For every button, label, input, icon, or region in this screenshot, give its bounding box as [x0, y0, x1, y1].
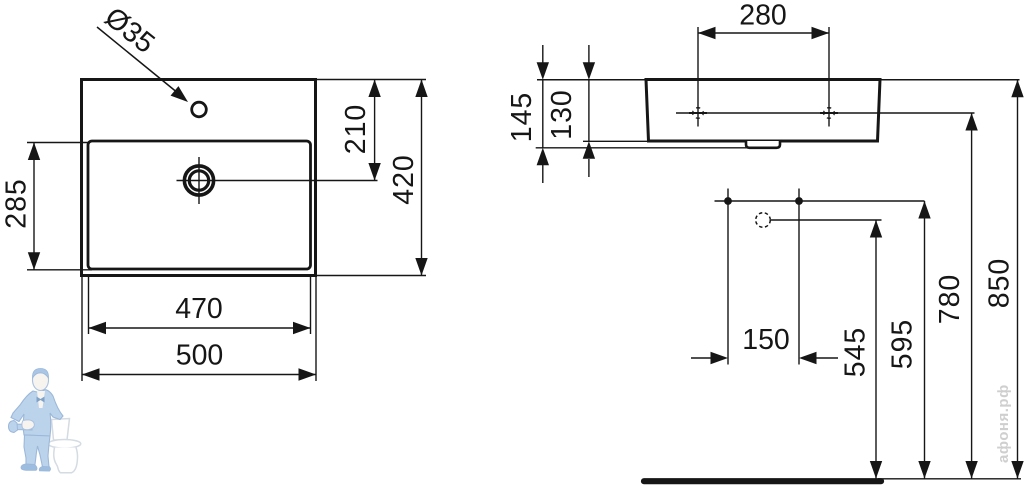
dim 420 arrow down [415, 258, 427, 276]
dim 285 line [33, 143, 35, 270]
man head [33, 370, 49, 391]
wrench head [9, 421, 18, 433]
dim 470 left extension line [88, 277, 90, 334]
drain centerline horizontal (210 bottom reference) [177, 180, 378, 182]
toilet bowl and pedestal [54, 448, 78, 473]
dim 500 right extension line [315, 277, 317, 381]
bow tie [37, 397, 45, 403]
drain crosshair vertical [198, 157, 200, 204]
dim 150 right arrow (outside, pointing left) [815, 357, 838, 359]
dim 285 bottom extension line [27, 269, 92, 271]
svg-text:595: 595 [887, 319, 919, 370]
dim 470 right extension line [310, 277, 312, 334]
floor thick line [644, 478, 881, 484]
wrench [13, 424, 32, 430]
dim 210 line [374, 80, 376, 181]
dim 285 arrow up [28, 143, 40, 161]
mounting hole right drill mark [820, 108, 838, 119]
man shirt front [37, 391, 45, 408]
svg-text:130: 130 [546, 89, 578, 140]
svg-text:500: 500 [176, 340, 224, 372]
dim 210 arrow down [368, 163, 380, 181]
toilet seat rim [48, 440, 81, 449]
dim 500 arrow right [299, 368, 317, 380]
drain outlet centerline (545 reference) [771, 219, 882, 221]
shoe left [21, 464, 37, 470]
man jacket torso and arms [11, 390, 63, 436]
fixing points horizontal line (595 reference) [715, 200, 925, 202]
svg-text:545: 545 [840, 327, 872, 378]
outer rectangle sink body [82, 80, 316, 276]
svg-text:280: 280 [739, 0, 787, 32]
dim 780 line [971, 113, 973, 479]
inner rectangle basin rim [88, 141, 311, 269]
dim 500 left extension line [81, 277, 83, 381]
svg-text:145: 145 [506, 92, 538, 143]
dashed circle drain outlet [756, 213, 771, 228]
fixing point dot left [724, 197, 732, 205]
dim 280 right extension line [828, 27, 830, 127]
dim 150 left arrow (outside, pointing right) [691, 357, 712, 359]
toilet tank [52, 419, 70, 441]
svg-text:афоня.рф: афоня.рф [995, 384, 1012, 463]
top reference thin line (basin top level, 850/145/130 reference) [537, 79, 1020, 81]
drain inner circle [189, 171, 208, 190]
dim 500 line [82, 374, 316, 376]
bottom extension line right of sink (420 reference) [316, 275, 427, 277]
svg-text:150: 150 [742, 324, 790, 356]
dim 500 arrow left [82, 368, 100, 380]
svg-text:210: 210 [340, 104, 372, 155]
dim 210 arrow up [368, 80, 380, 98]
dim 130 bottom arrow (outside, pointing up) [588, 159, 590, 177]
dim 280 arrow left [698, 27, 716, 39]
drain outer circle [184, 166, 213, 195]
fixing point vertical line left [727, 189, 729, 365]
dim 545 line [875, 220, 877, 479]
mounting holes centerline (780 reference) [676, 112, 975, 114]
dim 470 arrow left [89, 322, 107, 334]
dim 280 arrow right [812, 27, 830, 39]
fixing point vertical line right [798, 189, 800, 365]
mounting hole left drill mark [689, 108, 707, 119]
dim 850 line [1017, 80, 1019, 479]
leader arrowhead [171, 86, 192, 107]
dim 420 arrow up [415, 80, 427, 98]
top extension line right of sink (420/210 reference) [316, 79, 427, 81]
dim 145 line [542, 80, 544, 148]
svg-text:Ø35: Ø35 [98, 1, 160, 60]
dim 470 arrow right [293, 322, 311, 334]
man trousers legs [24, 435, 50, 467]
dim 595 line [924, 201, 926, 479]
fixing point dot right [795, 197, 803, 205]
dim 285 top extension line [27, 142, 89, 144]
dim 285 arrow down [28, 252, 40, 270]
dim 280 line [698, 32, 829, 34]
dim 470 line [89, 327, 311, 329]
drain tab under basin [746, 141, 780, 148]
svg-text:420: 420 [388, 154, 420, 205]
basin profile side view [646, 80, 880, 142]
svg-text:850: 850 [984, 258, 1016, 309]
svg-text:470: 470 [175, 293, 223, 325]
dim 130 bottom reference line (basin bottom) [583, 140, 650, 142]
dim 420 line [421, 80, 423, 276]
svg-text:285: 285 [1, 178, 33, 229]
dim 280 left extension line [697, 27, 699, 127]
man hair [32, 369, 48, 379]
floor thin line [878, 478, 1021, 480]
dim 145 bottom reference line (tab bottom) [536, 147, 747, 149]
faucet hole [192, 102, 207, 117]
dim 130 top arrow (outside, pointing down) [588, 45, 590, 63]
shoe right [39, 467, 50, 472]
dim 145 bottom arrow (outside, pointing up) [542, 165, 544, 183]
left hand over wrench [22, 420, 35, 430]
dim 130 line [588, 80, 590, 142]
dim 145 top arrow (outside, pointing down) [542, 45, 544, 63]
leader line to faucet hole [97, 27, 184, 98]
svg-text:780: 780 [934, 274, 966, 325]
